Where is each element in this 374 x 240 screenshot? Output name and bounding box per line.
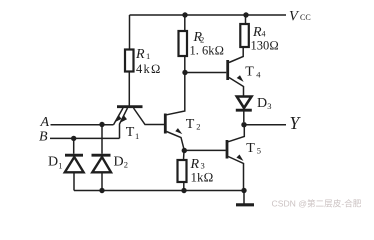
node junction rail-R4 <box>243 12 248 17</box>
svg-text:T: T <box>245 64 254 79</box>
svg-text:2: 2 <box>196 122 200 132</box>
wire R3 bottom <box>183 182 185 191</box>
svg-text:4: 4 <box>256 70 261 80</box>
svg-text:1kΩ: 1kΩ <box>191 170 214 185</box>
transistor T2 <box>165 73 185 151</box>
wire bottom rail <box>74 190 244 192</box>
transistor T1 multi-emitter <box>114 107 165 139</box>
svg-text:1. 6kΩ: 1. 6kΩ <box>190 44 225 58</box>
wire R2 bottom to junction <box>184 56 186 73</box>
svg-text:1: 1 <box>58 161 62 171</box>
wire output Y <box>244 124 286 126</box>
wire input B <box>50 137 120 139</box>
label D3 <box>257 96 272 111</box>
resistor R2 <box>179 31 188 56</box>
wire T5 base <box>184 149 226 151</box>
diode D2 <box>92 125 112 191</box>
node T5-rail <box>241 188 246 193</box>
svg-text:B: B <box>39 130 48 145</box>
node A to D2 <box>99 122 104 127</box>
svg-text:3: 3 <box>267 101 271 111</box>
svg-text:T: T <box>126 125 135 140</box>
svg-text:V: V <box>289 9 300 25</box>
label D2 <box>114 155 129 170</box>
wire R2 top drop <box>184 15 186 31</box>
transistor T4 <box>228 47 244 96</box>
svg-text:130Ω: 130Ω <box>251 38 279 52</box>
svg-text:Y: Y <box>290 113 302 133</box>
diode D1 <box>65 138 84 190</box>
svg-text:T: T <box>186 117 195 132</box>
svg-text:D: D <box>257 96 267 111</box>
diode D3 <box>236 97 252 123</box>
svg-text:5: 5 <box>257 146 261 156</box>
resistor R3 <box>178 160 187 182</box>
svg-text:R: R <box>135 47 145 62</box>
resistor R1 <box>125 50 134 72</box>
svg-text:A: A <box>40 115 50 130</box>
label R1 <box>135 47 162 76</box>
node junction R2/T2-collector/T4-base <box>182 70 187 75</box>
label R2 <box>190 30 225 58</box>
label T1 <box>126 125 139 141</box>
wire input A <box>51 124 114 126</box>
svg-text:2: 2 <box>124 160 128 170</box>
node B to D1 <box>71 136 76 141</box>
wire Vcc top rail <box>130 14 287 16</box>
svg-text:CC: CC <box>300 13 311 22</box>
label R4 <box>251 25 279 52</box>
svg-text:4: 4 <box>262 30 266 39</box>
wire rail corner down to R1 <box>129 15 131 50</box>
label D1 <box>48 155 63 171</box>
node output junction Y <box>241 122 246 127</box>
node R3-rail <box>181 188 186 193</box>
wire R4 top drop <box>245 15 247 24</box>
node junction rail-R2 <box>182 12 187 17</box>
svg-text:1: 1 <box>146 51 150 61</box>
label T2 <box>186 117 201 132</box>
svg-text:CSDN @第二层皮-合肥: CSDN @第二层皮-合肥 <box>272 198 362 209</box>
wire R1 to T1 base <box>128 72 130 106</box>
label R3 <box>190 157 214 185</box>
node junction T2emitter/R3/T5base <box>182 148 187 153</box>
label T4 <box>245 64 261 79</box>
label Vcc <box>289 9 311 25</box>
wire R3 top <box>183 151 186 161</box>
svg-text:D: D <box>114 155 124 170</box>
svg-text:T: T <box>246 141 255 156</box>
wire T4 base <box>185 72 226 74</box>
svg-text:4kΩ: 4kΩ <box>136 62 162 76</box>
transistor T5 <box>227 125 244 191</box>
resistor R4 <box>240 24 249 47</box>
ground <box>236 191 254 205</box>
svg-text:D: D <box>48 155 58 170</box>
node D2-rail <box>99 188 104 193</box>
label T5 <box>246 141 261 156</box>
svg-text:1: 1 <box>135 131 139 141</box>
